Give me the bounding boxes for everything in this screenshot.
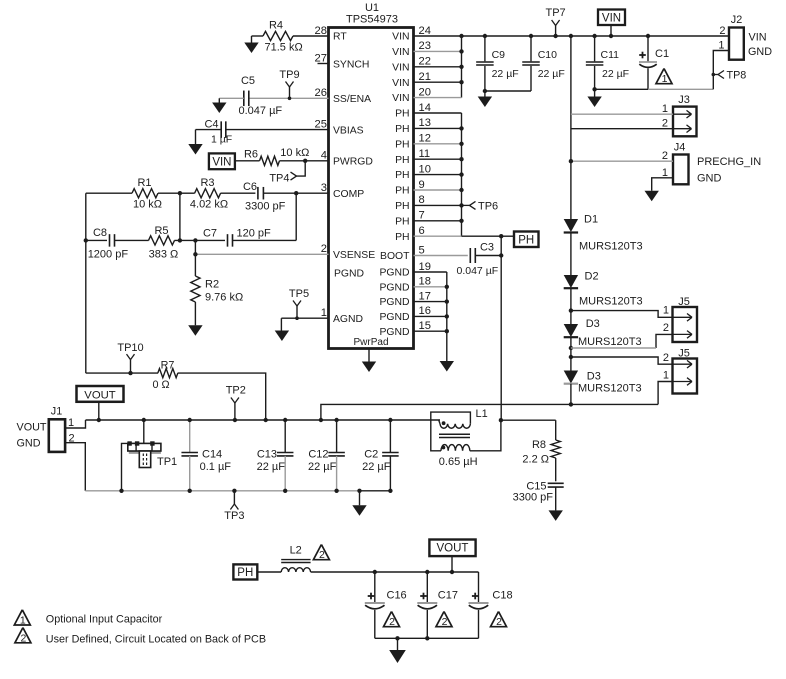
svg-text:SS/ENA: SS/ENA xyxy=(333,94,371,105)
svg-text:PH: PH xyxy=(237,567,253,579)
svg-text:2: 2 xyxy=(389,616,395,628)
svg-text:5: 5 xyxy=(419,244,425,256)
svg-text:10 kΩ: 10 kΩ xyxy=(133,198,162,210)
svg-text:2: 2 xyxy=(662,150,668,162)
svg-text:TP8: TP8 xyxy=(727,70,747,82)
svg-text:PH: PH xyxy=(395,186,409,197)
svg-text:VOUT: VOUT xyxy=(84,389,115,401)
svg-text:TP6: TP6 xyxy=(478,200,498,212)
svg-text:TP2: TP2 xyxy=(226,384,246,396)
svg-text:22 µF: 22 µF xyxy=(538,68,565,80)
svg-text:2: 2 xyxy=(442,616,448,628)
svg-text:VIN: VIN xyxy=(392,47,409,58)
svg-text:PH: PH xyxy=(518,234,534,246)
svg-text:13: 13 xyxy=(419,117,431,129)
svg-text:TP7: TP7 xyxy=(546,7,566,19)
svg-text:VIN: VIN xyxy=(392,32,409,43)
svg-text:MURS120T3: MURS120T3 xyxy=(578,336,642,348)
svg-text:VIN: VIN xyxy=(392,62,409,73)
svg-text:9.76 kΩ: 9.76 kΩ xyxy=(205,291,243,303)
svg-text:C5: C5 xyxy=(241,75,255,87)
svg-text:22 µF: 22 µF xyxy=(362,461,391,473)
svg-text:1: 1 xyxy=(321,307,327,319)
svg-text:PGND: PGND xyxy=(379,268,409,279)
svg-text:PRECHG_IN: PRECHG_IN xyxy=(697,156,761,168)
svg-text:3300 pF: 3300 pF xyxy=(513,491,554,503)
svg-text:PH: PH xyxy=(395,109,409,120)
svg-text:R8: R8 xyxy=(532,439,546,451)
svg-text:GND: GND xyxy=(17,437,41,449)
svg-text:PH: PH xyxy=(395,216,409,227)
svg-text:J3: J3 xyxy=(678,94,690,106)
svg-text:PwrPad: PwrPad xyxy=(353,337,388,348)
svg-text:VIN: VIN xyxy=(212,156,231,168)
svg-text:2: 2 xyxy=(663,322,669,334)
svg-text:1 µF: 1 µF xyxy=(211,133,232,145)
svg-text:D3: D3 xyxy=(587,371,601,383)
svg-text:1: 1 xyxy=(663,370,669,382)
svg-text:1: 1 xyxy=(718,40,724,52)
svg-text:C8: C8 xyxy=(93,227,107,239)
svg-text:C9: C9 xyxy=(492,49,506,61)
svg-text:24: 24 xyxy=(419,25,431,37)
svg-text:VSENSE: VSENSE xyxy=(333,250,375,261)
svg-text:PH: PH xyxy=(395,155,409,166)
svg-text:TP9: TP9 xyxy=(279,69,299,81)
svg-text:R3: R3 xyxy=(200,177,214,189)
svg-text:1200 pF: 1200 pF xyxy=(88,249,129,261)
svg-text:PGND: PGND xyxy=(334,269,364,280)
svg-text:8: 8 xyxy=(419,194,425,206)
svg-text:C16: C16 xyxy=(387,590,407,602)
svg-text:R6: R6 xyxy=(244,148,258,160)
svg-text:14: 14 xyxy=(419,102,431,114)
svg-text:26: 26 xyxy=(315,87,327,99)
svg-text:16: 16 xyxy=(419,305,431,317)
svg-text:22 µF: 22 µF xyxy=(492,68,519,80)
svg-text:VOUT: VOUT xyxy=(437,543,469,555)
svg-text:GND: GND xyxy=(697,172,722,184)
svg-text:20: 20 xyxy=(419,86,431,98)
svg-text:TP1: TP1 xyxy=(157,456,177,468)
svg-text:PGND: PGND xyxy=(379,312,409,323)
svg-text:17: 17 xyxy=(419,290,431,302)
svg-text:J4: J4 xyxy=(674,142,686,154)
svg-text:PGND: PGND xyxy=(379,327,409,338)
svg-text:VIN: VIN xyxy=(392,78,409,89)
svg-text:J5: J5 xyxy=(678,296,690,308)
svg-text:RT: RT xyxy=(333,32,347,43)
svg-text:U1: U1 xyxy=(365,2,379,14)
svg-text:VIN: VIN xyxy=(392,93,409,104)
svg-text:3: 3 xyxy=(321,182,327,194)
svg-text:25: 25 xyxy=(315,118,327,130)
svg-text:11: 11 xyxy=(419,148,431,160)
svg-text:2: 2 xyxy=(319,549,325,561)
svg-text:2: 2 xyxy=(496,616,502,628)
svg-text:C17: C17 xyxy=(438,590,458,602)
svg-text:J2: J2 xyxy=(731,14,742,26)
svg-text:10: 10 xyxy=(419,163,431,175)
svg-text:120 pF: 120 pF xyxy=(237,228,272,240)
svg-text:15: 15 xyxy=(419,320,431,332)
svg-text:22 µF: 22 µF xyxy=(257,461,286,473)
svg-text:C14: C14 xyxy=(202,449,222,461)
svg-text:3300 pF: 3300 pF xyxy=(245,201,286,213)
svg-text:VOUT: VOUT xyxy=(17,421,47,433)
svg-text:19: 19 xyxy=(419,261,431,273)
svg-text:SYNCH: SYNCH xyxy=(333,59,369,70)
svg-text:D3: D3 xyxy=(586,318,600,330)
svg-text:6: 6 xyxy=(419,225,425,237)
svg-text:4: 4 xyxy=(321,150,327,162)
svg-text:1: 1 xyxy=(20,615,26,627)
svg-text:27: 27 xyxy=(315,52,327,64)
svg-text:1: 1 xyxy=(662,103,668,115)
svg-text:D2: D2 xyxy=(585,270,599,282)
svg-text:C12: C12 xyxy=(308,449,328,461)
svg-text:J1: J1 xyxy=(51,405,62,417)
svg-text:L1: L1 xyxy=(476,408,488,420)
svg-text:22 µF: 22 µF xyxy=(308,461,337,473)
svg-text:J5: J5 xyxy=(678,348,690,360)
svg-text:1: 1 xyxy=(68,417,74,429)
svg-text:1: 1 xyxy=(663,305,669,317)
svg-text:C11: C11 xyxy=(601,49,620,61)
svg-text:TP10: TP10 xyxy=(117,342,143,354)
svg-text:COMP: COMP xyxy=(333,189,364,200)
svg-text:C6: C6 xyxy=(243,181,257,193)
svg-text:R4: R4 xyxy=(269,20,283,32)
svg-text:1: 1 xyxy=(662,73,668,85)
svg-text:PGND: PGND xyxy=(379,297,409,308)
svg-text:C4: C4 xyxy=(204,119,218,131)
svg-text:71.5 kΩ: 71.5 kΩ xyxy=(265,41,303,53)
svg-text:AGND: AGND xyxy=(333,314,363,325)
svg-text:0 Ω: 0 Ω xyxy=(152,379,169,391)
svg-text:C10: C10 xyxy=(538,49,557,61)
svg-text:C7: C7 xyxy=(203,228,217,240)
svg-text:21: 21 xyxy=(419,71,431,83)
svg-text:0.65 µH: 0.65 µH xyxy=(439,456,478,468)
svg-text:0.047 µF: 0.047 µF xyxy=(457,265,499,277)
svg-text:C18: C18 xyxy=(492,590,512,602)
svg-text:18: 18 xyxy=(419,276,431,288)
svg-text:PH: PH xyxy=(395,232,409,243)
svg-text:TP5: TP5 xyxy=(289,288,309,300)
svg-text:0.047 µF: 0.047 µF xyxy=(239,105,283,117)
svg-text:R5: R5 xyxy=(154,225,168,237)
svg-text:C2: C2 xyxy=(364,449,378,461)
svg-text:10 kΩ: 10 kΩ xyxy=(280,147,309,159)
svg-text:BOOT: BOOT xyxy=(380,251,410,262)
svg-text:22: 22 xyxy=(419,56,431,68)
svg-text:2.2 Ω: 2.2 Ω xyxy=(522,454,549,466)
svg-text:VBIAS: VBIAS xyxy=(333,125,364,136)
svg-text:GND: GND xyxy=(748,46,772,58)
svg-text:C1: C1 xyxy=(655,48,669,60)
svg-text:PH: PH xyxy=(395,170,409,181)
svg-text:User Defined, Circuit Located: User Defined, Circuit Located on Back of… xyxy=(46,633,266,645)
svg-text:R7: R7 xyxy=(161,359,175,371)
svg-text:TP3: TP3 xyxy=(224,510,244,522)
svg-text:C13: C13 xyxy=(257,449,277,461)
svg-text:TPS54973: TPS54973 xyxy=(346,14,398,26)
svg-text:9: 9 xyxy=(419,179,425,191)
svg-text:Optional Input Capacitor: Optional Input Capacitor xyxy=(46,614,163,626)
svg-text:MURS120T3: MURS120T3 xyxy=(579,241,643,253)
svg-text:L2: L2 xyxy=(290,545,302,557)
svg-text:C3: C3 xyxy=(480,242,494,254)
svg-text:22 µF: 22 µF xyxy=(602,68,629,80)
svg-text:0.1 µF: 0.1 µF xyxy=(200,461,232,473)
svg-text:MURS120T3: MURS120T3 xyxy=(578,383,642,395)
svg-text:2: 2 xyxy=(662,118,668,130)
svg-text:R1: R1 xyxy=(137,177,151,189)
svg-text:2: 2 xyxy=(719,25,725,37)
svg-text:2: 2 xyxy=(20,632,26,644)
svg-text:D1: D1 xyxy=(584,214,598,226)
svg-text:2: 2 xyxy=(663,352,669,364)
svg-text:23: 23 xyxy=(419,40,431,52)
svg-text:PH: PH xyxy=(395,201,409,212)
svg-text:VIN: VIN xyxy=(749,32,767,44)
svg-text:4.02 kΩ: 4.02 kΩ xyxy=(190,198,228,210)
svg-text:PH: PH xyxy=(395,139,409,150)
svg-text:MURS120T3: MURS120T3 xyxy=(579,296,643,308)
svg-text:PGND: PGND xyxy=(379,282,409,293)
svg-text:383 Ω: 383 Ω xyxy=(149,249,179,261)
svg-text:PWRGD: PWRGD xyxy=(333,157,373,168)
svg-text:2: 2 xyxy=(321,243,327,255)
svg-text:TP4: TP4 xyxy=(269,172,289,184)
svg-text:PH: PH xyxy=(395,124,409,135)
svg-text:7: 7 xyxy=(419,210,425,222)
svg-text:VIN: VIN xyxy=(602,12,621,24)
svg-text:28: 28 xyxy=(315,25,327,37)
svg-text:R2: R2 xyxy=(205,278,219,290)
svg-text:12: 12 xyxy=(419,133,431,145)
